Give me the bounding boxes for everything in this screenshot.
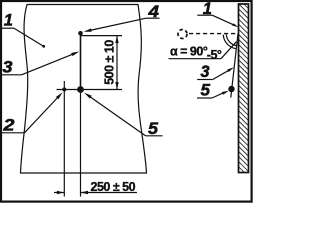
panel outline (front view sheet with wavy side edges): [21, 5, 147, 174]
svg-text:3: 3: [201, 63, 210, 81]
dimension line 250±50 left segment: [54, 192, 64, 194]
node top dot: [78, 31, 83, 36]
leader of 5: [90, 96, 146, 135]
leader of 4: [90, 18, 147, 30]
dashed reference line: [189, 33, 239, 35]
border frame: [1, 1, 252, 202]
sheet edge-on line: [231, 34, 238, 98]
node bottom big dot: [77, 86, 84, 93]
svg-text:2: 2: [2, 117, 14, 135]
angle arc inner: [226, 35, 236, 46]
wall (hatched section): [239, 4, 249, 173]
leader of 3 right: [213, 70, 229, 79]
svg-text:α = 90°: α = 90°: [170, 45, 208, 59]
seam line (vertical joint): [80, 33, 82, 89]
svg-text:250 ± 50: 250 ± 50: [91, 180, 136, 194]
leader of 1 right: [212, 15, 234, 25]
extension tick top: [81, 35, 123, 37]
leader of alpha: [221, 42, 236, 59]
leader of 1: [14, 28, 44, 46]
svg-text:500 ± 10: 500 ± 10: [103, 40, 117, 85]
extension line right vertical: [80, 90, 82, 197]
svg-text:-5°: -5°: [207, 48, 222, 62]
datum dashed circle: [178, 30, 187, 39]
extension tick bottom (horizontal through dots): [57, 89, 123, 91]
fastener dot (right view): [228, 86, 234, 92]
svg-text:5: 5: [201, 82, 211, 100]
angle arc outer: [223, 35, 236, 49]
extension line left vertical: [63, 81, 65, 197]
leader of 5 right: [212, 93, 224, 98]
dimension line 500±10: [116, 36, 118, 90]
svg-text:1: 1: [4, 12, 13, 30]
dimension line 250±50 right segment: [81, 192, 138, 194]
leader of 2: [25, 97, 59, 133]
svg-text:3: 3: [3, 59, 13, 77]
leader of 3: [22, 54, 75, 75]
node small dot (fastener): [62, 88, 66, 92]
